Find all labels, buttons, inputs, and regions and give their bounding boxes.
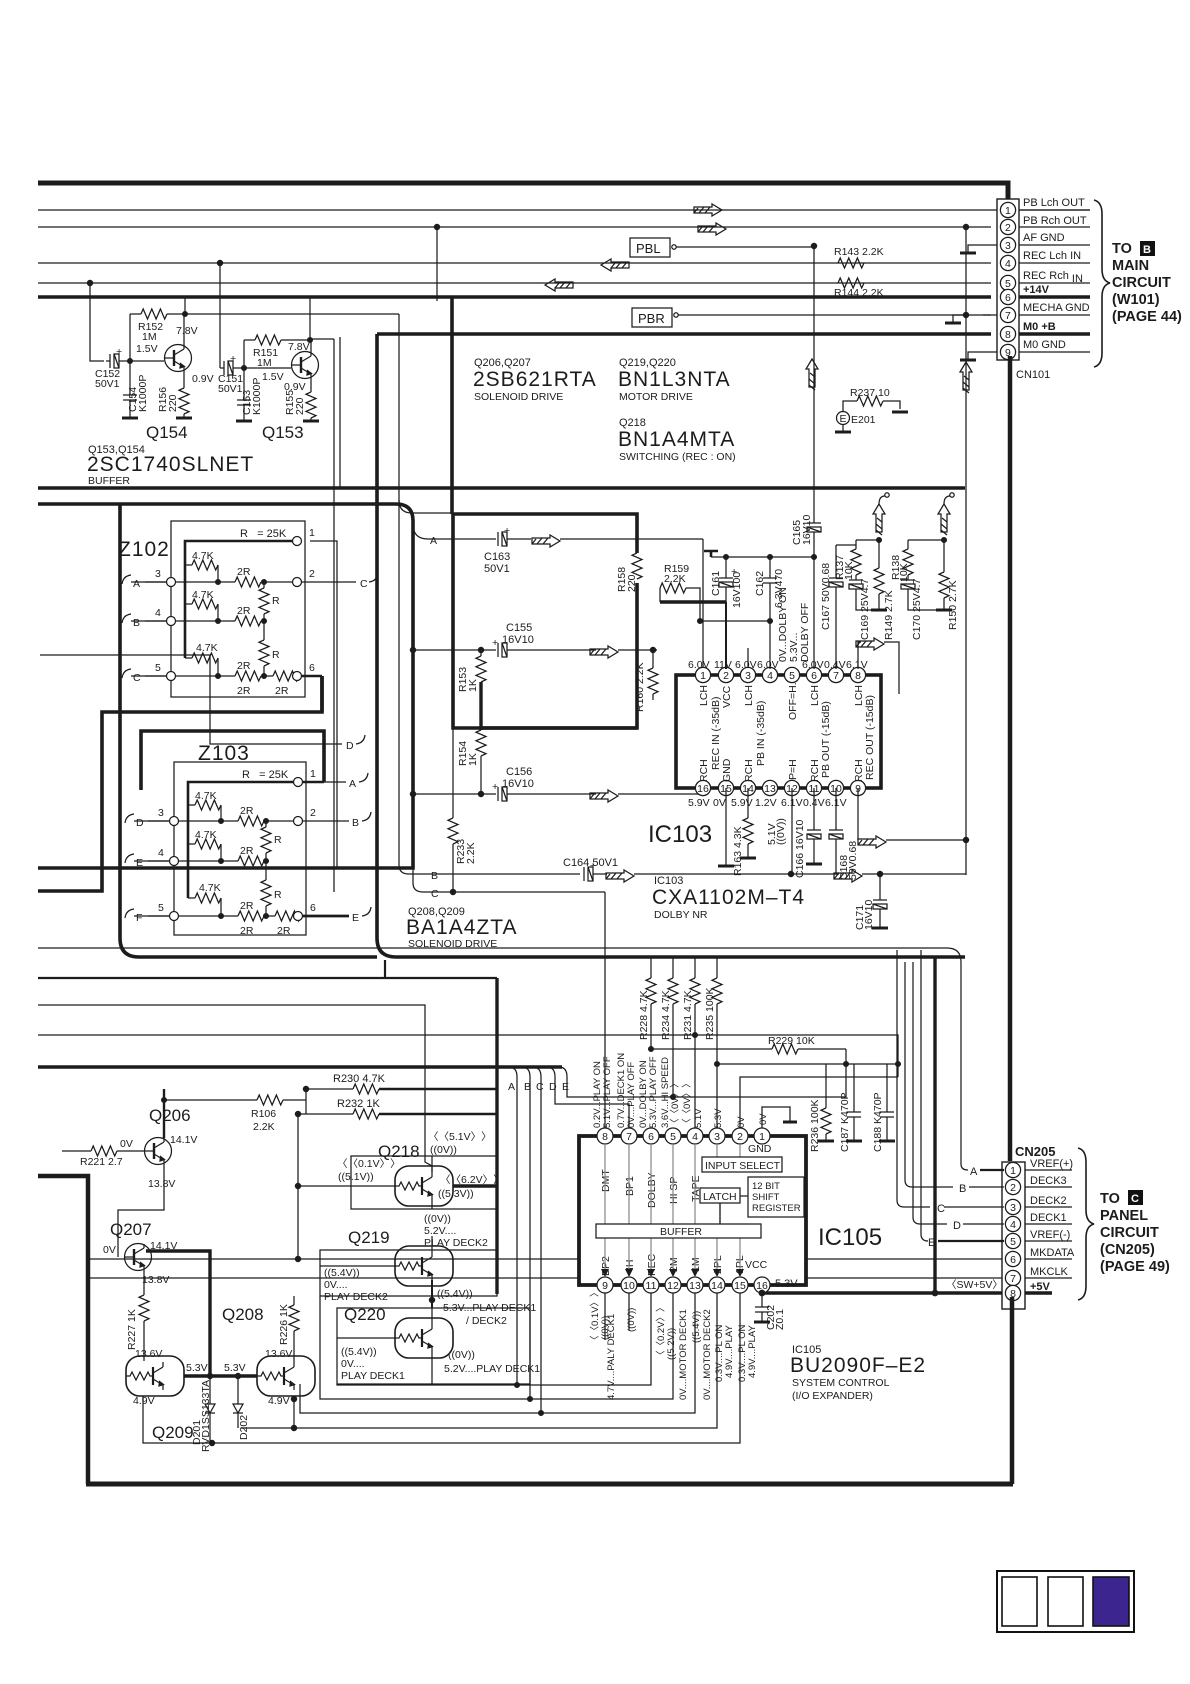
svg-text:16V10: 16V10: [863, 899, 875, 930]
svg-text:C187 K470P: C187 K470P: [839, 1092, 851, 1152]
svg-text:0V: 0V: [103, 1244, 116, 1256]
net labels: [1023, 197, 1090, 351]
svg-text:2SB621RTA: 2SB621RTA: [473, 368, 597, 391]
svg-text:E: E: [840, 413, 847, 425]
svg-text:(I/O EXPANDER): (I/O EXPANDER): [792, 1390, 873, 1402]
row E wire + 2R: [148, 860, 238, 862]
svg-text:A: A: [133, 578, 140, 590]
thick bus y978: [38, 977, 497, 979]
resistor R151 1M: [244, 339, 255, 341]
bottom staircase wires from pins: [337, 1293, 651, 1385]
hooks A B C left: [122, 575, 131, 584]
svg-text:R: R: [274, 834, 282, 846]
resistor R152 1M: [130, 313, 141, 315]
emitter down and to Q207 base: [118, 1164, 164, 1257]
vertical to Q218 base and MKDATA: [297, 1114, 299, 1259]
connector CN205 box: [1002, 1162, 1025, 1309]
pin 3: [1000, 237, 1015, 252]
svg-text:E201: E201: [851, 414, 876, 426]
svg-text:C163: C163: [484, 551, 510, 563]
svg-text:4.9V....PLAY: 4.9V....PLAY: [724, 1325, 735, 1378]
svg-text:6: 6: [1005, 292, 1011, 304]
svg-text:2R: 2R: [237, 660, 251, 672]
svg-text:BN1L3NTA: BN1L3NTA: [618, 368, 731, 391]
svg-text:6: 6: [1010, 1254, 1016, 1266]
wire MECHA GND: [678, 314, 991, 316]
svg-text:BA1A4ZTA: BA1A4ZTA: [406, 916, 517, 939]
dolby on/off labels: [777, 587, 811, 662]
svg-text:6: 6: [811, 670, 817, 682]
Q219 emitter down to Q220: [431, 1236, 433, 1252]
resistor R158 220: [632, 553, 642, 579]
svg-text:C156: C156: [506, 766, 532, 778]
svg-text:3: 3: [745, 670, 751, 682]
pin 4: [1000, 255, 1015, 270]
svg-text:1: 1: [1010, 1165, 1016, 1177]
svg-text:50V1: 50V1: [95, 378, 120, 390]
wire pin1 gnd: [762, 1107, 790, 1128]
svg-text:PB Lch OUT: PB Lch OUT: [1023, 197, 1085, 209]
svg-text:B: B: [524, 1081, 531, 1093]
svg-text:R236 100K: R236 100K: [809, 1099, 821, 1152]
svg-text:BUFFER: BUFFER: [88, 475, 130, 487]
svg-text:R160 2.2K: R160 2.2K: [634, 662, 646, 712]
thick wire from pin9 down: [1008, 356, 1013, 1161]
svg-text:5.2V....PLAY DECK1: 5.2V....PLAY DECK1: [444, 1363, 540, 1375]
collector wire up: [310, 340, 312, 352]
svg-text:REC OUT (-15dB): REC OUT (-15dB): [864, 695, 876, 780]
svg-text:E: E: [352, 912, 359, 924]
svg-text:7: 7: [626, 1131, 632, 1143]
svg-text:D: D: [549, 1081, 557, 1093]
svg-text:HI SP: HI SP: [668, 1177, 680, 1204]
svg-text:2: 2: [1005, 222, 1011, 234]
svg-text:12 BIT: 12 BIT: [752, 1181, 780, 1192]
svg-text:MAIN: MAIN: [1112, 258, 1149, 274]
row A wire + 2R: [145, 581, 235, 583]
resistor R149 2.7K: [874, 568, 884, 594]
svg-text:0V....MOTOR DECK2: 0V....MOTOR DECK2: [702, 1309, 713, 1400]
resistor R229 10K: [649, 1047, 654, 1052]
capacitor C167: [835, 545, 837, 578]
capacitor C166: [813, 788, 815, 830]
svg-text:((5.1V)): ((5.1V)): [338, 1171, 374, 1183]
svg-text:TO: TO: [1112, 241, 1132, 257]
hook B right: [303, 820, 349, 822]
svg-text:(CN205): (CN205): [1100, 1242, 1155, 1258]
bottom border thick: [86, 1482, 1013, 1487]
capacitor C161: [725, 557, 727, 578]
svg-text:((0V)): ((0V)): [626, 1308, 637, 1332]
wire y1005: [38, 1005, 425, 1156]
transistor Q153: [292, 352, 319, 379]
svg-text:2R: 2R: [240, 805, 254, 817]
svg-text:+: +: [116, 346, 122, 358]
pin 1: [1000, 202, 1015, 217]
svg-text:((0V)): ((0V)): [775, 818, 787, 845]
svg-text:2: 2: [1010, 1182, 1016, 1194]
thick vertical from M0+B down, curving right at bottom: [377, 334, 965, 957]
svg-text:C: C: [431, 888, 439, 900]
svg-text:0.9V: 0.9V: [192, 373, 214, 385]
svg-text:5.3V: 5.3V: [224, 1362, 246, 1374]
svg-text:5.1V...PLAY OFF: 5.1V...PLAY OFF: [602, 1056, 613, 1128]
svg-text:C170 25V4.7: C170 25V4.7: [911, 579, 923, 640]
resistor R236 100K: [825, 1064, 827, 1108]
row D wire + 2R: [148, 820, 238, 822]
internal wires gray: [605, 1144, 740, 1277]
resistor R231 4.7K: [694, 958, 696, 978]
svg-text:2.2K: 2.2K: [253, 1121, 275, 1133]
brace: [1078, 1148, 1094, 1300]
svg-text:16V10: 16V10: [801, 514, 813, 545]
svg-text:50V1: 50V1: [484, 563, 510, 575]
svg-text:0.4V: 0.4V: [824, 659, 846, 671]
svg-text:+: +: [504, 525, 510, 537]
svg-text:〈〈0V〉〉: 〈〈0V〉〉: [670, 1078, 681, 1128]
svg-text:13.8V: 13.8V: [142, 1274, 169, 1286]
svg-text:PB OUT (-15dB): PB OUT (-15dB): [820, 701, 832, 778]
arrow and hook: [873, 504, 885, 535]
svg-text:PB Rch OUT: PB Rch OUT: [1023, 215, 1087, 227]
svg-text:C169 25V4.7: C169 25V4.7: [859, 579, 871, 640]
PBR box: [632, 308, 672, 327]
pin circles: [294, 778, 303, 787]
diode D201: [207, 1373, 212, 1378]
pin 5: [1000, 275, 1015, 290]
svg-text:5: 5: [1005, 278, 1011, 290]
node base Q153: [244, 367, 291, 369]
transistor Q218 dtr + box: [351, 1156, 497, 1209]
svg-text:REC Lch IN: REC Lch IN: [1023, 250, 1081, 262]
svg-text:0V: 0V: [120, 1138, 133, 1150]
svg-text:B: B: [959, 1183, 966, 1195]
svg-text:12: 12: [667, 1280, 679, 1292]
inner bracket thick: [185, 541, 297, 658]
svg-text:1: 1: [759, 1131, 765, 1143]
svg-text:6: 6: [309, 662, 315, 674]
svg-text:3: 3: [158, 807, 164, 819]
thick vertical x452 (box wire): [450, 297, 454, 514]
emitter wire to R156: [183, 371, 185, 388]
thick staircase bus SA: [38, 676, 322, 891]
capacitor C171: [879, 874, 881, 900]
svg-text:4: 4: [767, 670, 773, 682]
wire +14V thick: [38, 295, 991, 299]
pin12 wire down to B line: [791, 788, 793, 874]
pin wires to the right: [1019, 209, 1090, 211]
Q218 collector up / emitter to thick x497: [431, 1156, 433, 1172]
svg-text:C: C: [360, 578, 368, 590]
svg-text:B: B: [1143, 244, 1151, 256]
svg-text:GND: GND: [748, 1143, 772, 1155]
svg-text:/ DECK2: / DECK2: [466, 1315, 507, 1327]
svg-text:C162: C162: [754, 571, 766, 596]
svg-text:4.7K: 4.7K: [199, 882, 221, 894]
svg-text:Q153: Q153: [262, 423, 304, 442]
svg-text:R235 100K: R235 100K: [704, 987, 716, 1040]
svg-text:13: 13: [689, 1280, 701, 1292]
svg-text:3: 3: [714, 1131, 720, 1143]
svg-text:+: +: [590, 860, 596, 872]
top pins 1-8: [695, 667, 865, 795]
5.3V thick wire to Q208: [184, 1374, 225, 1377]
net hooks A-E dropping from thick bus: [509, 1067, 517, 1385]
svg-text:+: +: [230, 353, 236, 365]
Q208 emitter bottom wire: [293, 1396, 295, 1428]
BUFFER box: [596, 1224, 761, 1238]
svg-text:C: C: [536, 1081, 544, 1093]
svg-text:C167 50V0.68: C167 50V0.68: [820, 563, 832, 630]
svg-text:((5.2V)): ((5.2V)): [666, 1328, 677, 1360]
svg-text:((0V)): ((0V)): [448, 1349, 475, 1361]
svg-text:2SC1740SLNET: 2SC1740SLNET: [87, 453, 254, 476]
thick vertical right of Z103: [320, 676, 324, 712]
transistor Q154: [165, 345, 192, 372]
svg-text:8: 8: [1005, 329, 1011, 341]
svg-text:13.8V: 13.8V: [148, 1178, 175, 1190]
wire from REC Rch dot down to C152: [90, 283, 104, 361]
svg-text:2: 2: [310, 807, 316, 819]
svg-text:AF GND: AF GND: [1023, 232, 1065, 244]
svg-text:2R: 2R: [275, 685, 289, 697]
svg-text:TO: TO: [1100, 1191, 1120, 1207]
pin9/pin10 stubs: [604, 1293, 606, 1340]
svg-text:LCH: LCH: [698, 685, 710, 706]
svg-text:((5.4V)): ((5.4V)): [691, 1311, 702, 1343]
svg-text:R: R: [274, 889, 282, 901]
svg-text:2.2K: 2.2K: [465, 842, 477, 864]
svg-text:6.0V: 6.0V: [735, 659, 757, 671]
svg-text:Z102: Z102: [118, 538, 170, 561]
svg-text:PBL: PBL: [636, 241, 661, 256]
svg-text:D202: D202: [238, 1415, 250, 1440]
svg-text:50V1: 50V1: [218, 383, 243, 395]
svg-text:〈〈0.1V〉〉: 〈〈0.1V〉〉: [337, 1158, 401, 1170]
svg-text:220: 220: [294, 397, 306, 415]
svg-text:2R: 2R: [237, 685, 251, 697]
svg-text:13.6V: 13.6V: [265, 1348, 292, 1360]
capacitor C165: [807, 523, 821, 532]
svg-text:E: E: [136, 857, 143, 869]
svg-text:C155: C155: [506, 622, 532, 634]
svg-text:9: 9: [602, 1280, 608, 1292]
inner bracket thick: [188, 782, 298, 898]
content groups inserted below: [38, 183, 1090, 957]
svg-text:13: 13: [764, 783, 776, 795]
svg-text:VCC: VCC: [721, 685, 733, 708]
pin 7: [1000, 307, 1015, 322]
svg-text:4: 4: [155, 607, 161, 619]
svg-text:2: 2: [723, 670, 729, 682]
wire from REC Lch dot down to C151: [219, 263, 221, 368]
svg-text:E: E: [928, 1237, 935, 1249]
TO B MAIN CIRCUIT text: [1112, 241, 1182, 325]
thin vertical pair left: [310, 338, 334, 340]
wire pin16 to +5V rail: [761, 1293, 763, 1307]
thick section divider: [38, 486, 965, 490]
bottom rotated labels: [590, 1287, 758, 1400]
wire vertical x814 from PBL: [813, 246, 815, 523]
svg-text:220: 220: [626, 574, 638, 592]
svg-text:5.3V: 5.3V: [713, 1108, 724, 1128]
net labels: [1030, 1158, 1075, 1293]
svg-text:C: C: [133, 672, 141, 684]
wire REC Rch IN: [38, 282, 991, 284]
pin6 to thick bus: [302, 675, 322, 677]
ground at pin7: [983, 314, 997, 316]
wire PB Lch OUT: [38, 209, 1090, 211]
Q209 emitter bottom wire: [143, 1396, 212, 1443]
svg-text:6.1V: 6.1V: [846, 659, 868, 671]
capacitor C162: [769, 557, 771, 578]
svg-text:DOLBY NR: DOLBY NR: [654, 909, 708, 921]
svg-text:MOTOR DRIVE: MOTOR DRIVE: [619, 391, 693, 403]
svg-text:4.9V: 4.9V: [268, 1395, 290, 1407]
svg-text:R227 1K: R227 1K: [126, 1309, 138, 1350]
svg-text:PLAY DECK2: PLAY DECK2: [424, 1237, 488, 1249]
svg-text:VREF(-): VREF(-): [1030, 1229, 1070, 1241]
svg-text:4.9V....PLAY: 4.9V....PLAY: [747, 1325, 758, 1378]
capacitor C152: [110, 354, 119, 368]
svg-text:7: 7: [1010, 1273, 1016, 1285]
thick +5V rail: [933, 958, 936, 1293]
PBL box: [630, 238, 670, 257]
svg-text:13.6V: 13.6V: [135, 1348, 162, 1360]
svg-text:14: 14: [711, 1280, 723, 1292]
svg-text:R = 25K: R = 25K: [242, 769, 289, 781]
transistor Q219 dtr + box: [320, 1250, 497, 1296]
svg-text:0V: 0V: [736, 1116, 747, 1128]
svg-text:Q209: Q209: [152, 1423, 194, 1442]
svg-text:11V: 11V: [714, 659, 732, 671]
svg-text:(PAGE 49): (PAGE 49): [1100, 1259, 1170, 1275]
svg-text:DMT: DMT: [600, 1169, 612, 1192]
svg-text:2R: 2R: [237, 566, 251, 578]
capacitor C153 K1000P: [243, 398, 245, 400]
svg-text:3: 3: [1010, 1202, 1016, 1214]
svg-text:PLAY DECK1: PLAY DECK1: [341, 1370, 405, 1382]
svg-text:M0 +B: M0 +B: [1023, 321, 1056, 333]
svg-text:7.8V: 7.8V: [288, 341, 310, 353]
svg-text:B: B: [133, 617, 140, 629]
pin circles: [293, 537, 302, 546]
svg-text:3: 3: [155, 568, 161, 580]
IC103 chip body: [676, 675, 881, 788]
svg-text:2: 2: [309, 568, 315, 580]
svg-text:CIRCUIT: CIRCUIT: [1100, 1225, 1159, 1241]
svg-text:15: 15: [734, 1280, 746, 1292]
svg-text:10: 10: [623, 1280, 635, 1292]
emitter wire to R155: [310, 378, 312, 392]
svg-text:16: 16: [697, 783, 709, 795]
wire gnd line y557: [704, 551, 718, 557]
svg-text:8: 8: [855, 670, 861, 682]
svg-text:((0V)): ((0V)): [430, 1144, 457, 1156]
thick staircase bus SC: [141, 731, 324, 790]
svg-text:SYSTEM CONTROL: SYSTEM CONTROL: [792, 1377, 890, 1389]
svg-text:5.3V: 5.3V: [775, 1278, 798, 1290]
pins: [1005, 1162, 1020, 1300]
wire vertical x966: [965, 227, 967, 875]
svg-text:5: 5: [789, 670, 795, 682]
svg-text:5.3V...PLAY DECK1: 5.3V...PLAY DECK1: [443, 1302, 536, 1314]
svg-text:1.2V: 1.2V: [755, 797, 777, 809]
12 BIT SHIFT REGISTER box: [748, 1177, 804, 1217]
vertical R resistors: [263, 582, 265, 588]
svg-text:2R: 2R: [240, 900, 254, 912]
svg-text:0V: 0V: [713, 797, 726, 809]
arrow up on x966: [960, 362, 972, 393]
svg-text:R221 2.7: R221 2.7: [80, 1156, 123, 1168]
svg-text:4: 4: [692, 1131, 698, 1143]
svg-text:VREF(+): VREF(+): [1030, 1158, 1073, 1170]
svg-text:IH: IH: [624, 1260, 636, 1271]
hook feeds A-E: [961, 1164, 968, 1170]
thick node wire: [479, 682, 482, 730]
row F wire + 2R 2R: [148, 915, 238, 917]
svg-text:R: R: [272, 595, 280, 607]
pin voltage labels: [688, 659, 868, 845]
svg-text:2R: 2R: [277, 925, 291, 937]
svg-text:10K: 10K: [843, 561, 855, 580]
row C wire + 2R 2R: [145, 675, 235, 677]
svg-text:4.9V: 4.9V: [133, 1395, 155, 1407]
svg-text:PBR: PBR: [638, 311, 665, 326]
svg-text:DOLBY: DOLBY: [646, 1172, 658, 1208]
capacitor C169: [855, 575, 857, 580]
resistor R234 4.7K: [672, 958, 674, 978]
brace: [1094, 200, 1110, 367]
svg-text:8: 8: [602, 1131, 608, 1143]
LATCH box: [700, 1188, 740, 1203]
resistor R228 4.7K: [650, 958, 652, 978]
wire MKDATA: [90, 1258, 1003, 1260]
svg-text:5: 5: [155, 662, 161, 674]
svg-text:〈〈6.2V〉〉: 〈〈6.2V〉〉: [440, 1174, 504, 1186]
svg-text:50V0.68: 50V0.68: [847, 841, 859, 880]
svg-text:E: E: [562, 1081, 569, 1093]
svg-text:5: 5: [1010, 1236, 1016, 1248]
capacitor C188 K470P: [886, 1064, 888, 1112]
svg-text:7.8V: 7.8V: [176, 325, 198, 337]
node A wire with C163: [413, 524, 428, 539]
inner labels: [600, 1143, 772, 1276]
node base Q154: [130, 360, 164, 362]
svg-text:2.2K: 2.2K: [664, 573, 686, 585]
svg-text:INPUT SELECT: INPUT SELECT: [705, 1160, 781, 1172]
svg-text:R143 2.2K: R143 2.2K: [834, 246, 884, 258]
svg-text:+: +: [492, 781, 498, 793]
top rotated labels: [592, 1053, 769, 1128]
node B wire with C164: [399, 500, 425, 874]
svg-text:R237 10: R237 10: [850, 387, 890, 399]
svg-text:B: B: [431, 870, 438, 882]
resistor R156 220: [179, 388, 189, 414]
thick loop box with R158 on right edge: [453, 514, 637, 728]
svg-text:6: 6: [648, 1131, 654, 1143]
svg-text:Q219: Q219: [348, 1228, 390, 1247]
svg-text:5.1V: 5.1V: [693, 1108, 704, 1128]
resistor R155 220: [306, 392, 316, 418]
svg-text:IC105: IC105: [818, 1224, 882, 1251]
resistor R233 2.2K: [452, 728, 454, 818]
inner pin labels rotated: [698, 682, 876, 782]
svg-text:Z0.1: Z0.1: [774, 1309, 786, 1330]
pin 6: [1000, 289, 1015, 304]
svg-text:((5.4V)): ((5.4V)): [437, 1288, 473, 1300]
arrows on PB OUT lines: [694, 204, 722, 216]
